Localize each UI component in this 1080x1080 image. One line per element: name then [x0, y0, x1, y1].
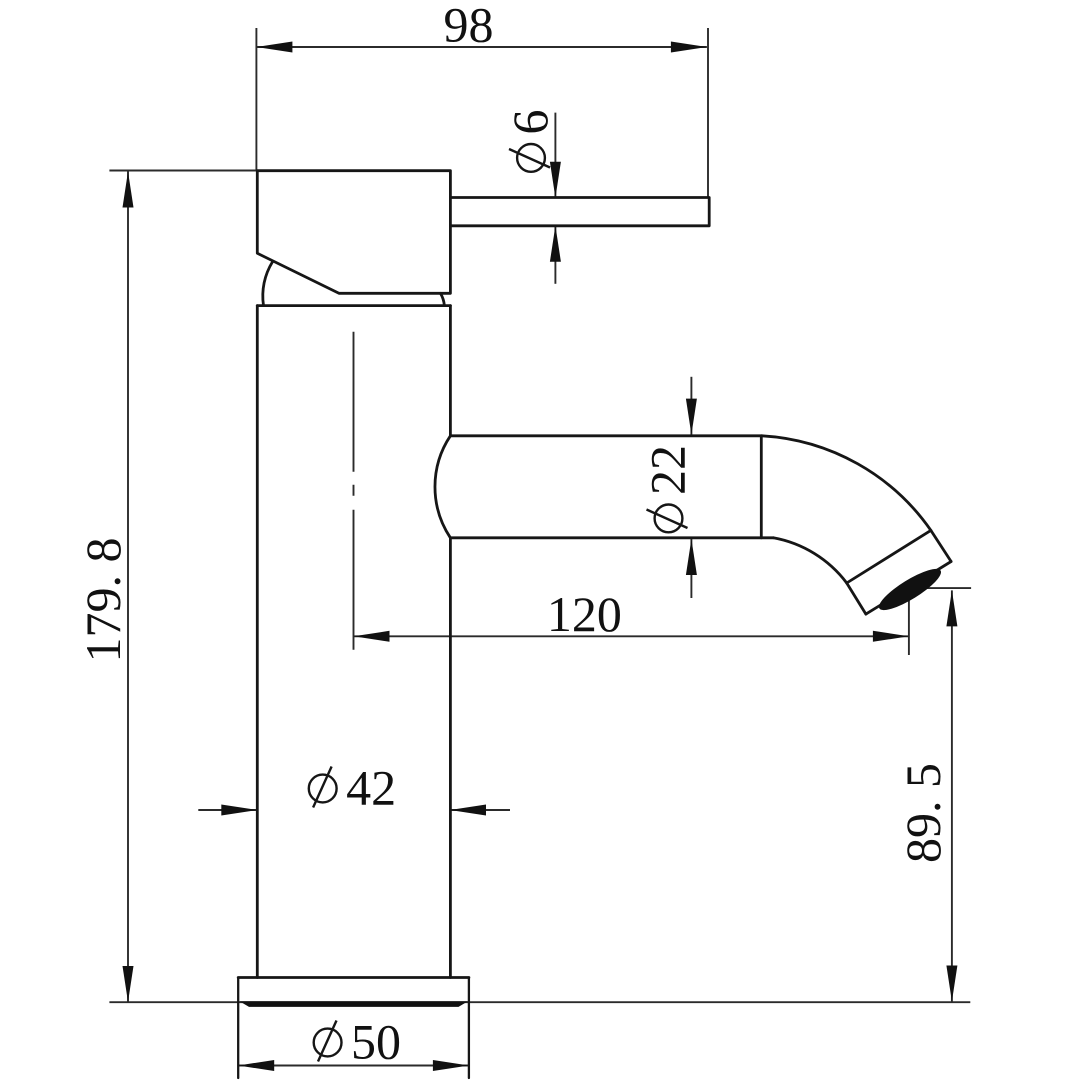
- extension line spout tip horizontal: [924, 587, 971, 589]
- spout bottom edge: [450, 536, 773, 539]
- label 89.5 rotated: [895, 763, 951, 863]
- svg-text:42: 42: [346, 760, 396, 816]
- arrow 120 right: [873, 631, 909, 642]
- dimension line d22: [690, 377, 692, 435]
- dimension line d6: [554, 113, 556, 198]
- spout top edge: [450, 434, 762, 437]
- label 179.8 rotated: [75, 538, 131, 663]
- dimension line 89.5: [951, 590, 953, 1001]
- extension line 98 right: [707, 28, 709, 198]
- label d42: [309, 760, 396, 816]
- dome arc left: [263, 262, 273, 306]
- arrow 120 left: [354, 631, 390, 642]
- extension line 98 left: [255, 28, 257, 171]
- svg-text:6: 6: [502, 110, 558, 135]
- body left edge: [256, 306, 259, 978]
- dimension line 98: [256, 46, 707, 48]
- base left edge: [237, 978, 239, 1079]
- arrow 98 right: [671, 42, 707, 53]
- svg-text:22: 22: [640, 445, 696, 495]
- dome arc right: [441, 293, 445, 305]
- handle lever bar: [450, 198, 709, 226]
- spout bend tangent line: [760, 436, 763, 538]
- svg-text:179. 8: 179. 8: [75, 538, 131, 663]
- arrow d42 left: [221, 805, 257, 816]
- arrow 98 left: [256, 42, 292, 53]
- svg-text:120: 120: [547, 586, 622, 642]
- aerator separation line: [847, 531, 931, 583]
- spout outer bend arc: [762, 436, 931, 531]
- body right edge upper: [449, 306, 452, 436]
- arrow d6 bottom: [550, 226, 561, 262]
- arrow d6 top: [550, 162, 561, 198]
- label d50: [314, 1014, 401, 1070]
- extension line top left: [109, 170, 257, 172]
- svg-text:98: 98: [444, 0, 494, 53]
- centerline: [353, 332, 355, 652]
- base right edge: [468, 978, 470, 1079]
- arrow 179.8 bottom: [123, 966, 134, 1002]
- arrow 179.8 top: [123, 172, 134, 208]
- outlet opening: [874, 563, 945, 617]
- arrow d50 left: [238, 1060, 274, 1071]
- arrow d22 bottom: [686, 539, 697, 575]
- base plate top: [238, 976, 469, 979]
- arrow d50 right: [433, 1060, 469, 1071]
- spout cap inner edge: [847, 583, 866, 614]
- body right edge lower: [449, 538, 452, 978]
- svg-text:50: 50: [351, 1014, 401, 1070]
- svg-text:89. 5: 89. 5: [895, 763, 951, 863]
- arrow d42 right: [450, 805, 486, 816]
- dimension line d42: [198, 809, 257, 811]
- faucet head housing: [257, 171, 450, 294]
- label d22 rotated: [640, 445, 696, 532]
- body top line: [257, 304, 450, 307]
- base bottom ring: [240, 1001, 469, 1007]
- baseline extension: [109, 1001, 970, 1003]
- spout cap outer edge: [931, 531, 951, 562]
- dimension line 120: [354, 635, 909, 637]
- spout inner bend arc: [773, 538, 846, 583]
- arrow 89.5 bottom: [946, 966, 957, 1002]
- dimension line 179.8: [127, 172, 129, 1003]
- arrow d22 top: [686, 399, 697, 435]
- label d6 rotated: [502, 110, 558, 172]
- dimension line d50: [238, 1065, 469, 1067]
- spout ball joint arc: [435, 436, 450, 538]
- extension line spout tip vertical: [908, 595, 910, 655]
- spout outlet face: [866, 562, 951, 615]
- arrow 89.5 top: [946, 590, 957, 626]
